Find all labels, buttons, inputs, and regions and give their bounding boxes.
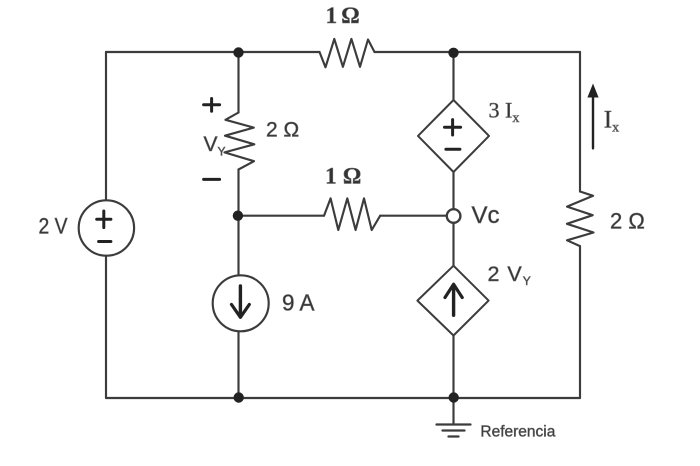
svg-text:9 A: 9 A	[282, 289, 315, 315]
svg-text:2 V: 2 V	[39, 214, 68, 239]
svg-text:Vc: Vc	[472, 202, 500, 229]
svg-text:1 Ω: 1 Ω	[325, 163, 361, 188]
svg-text:3 Ix: 3 Ix	[489, 98, 520, 127]
svg-text:Referencia: Referencia	[480, 424, 555, 441]
svg-text:VY: VY	[204, 133, 226, 159]
svg-text:2 Ω: 2 Ω	[266, 119, 299, 142]
svg-text:2 Ω: 2 Ω	[610, 208, 645, 233]
svg-text:Ix: Ix	[604, 106, 619, 135]
svg-text:2 VY: 2 VY	[488, 262, 531, 288]
svg-text:1 Ω: 1 Ω	[326, 3, 360, 28]
